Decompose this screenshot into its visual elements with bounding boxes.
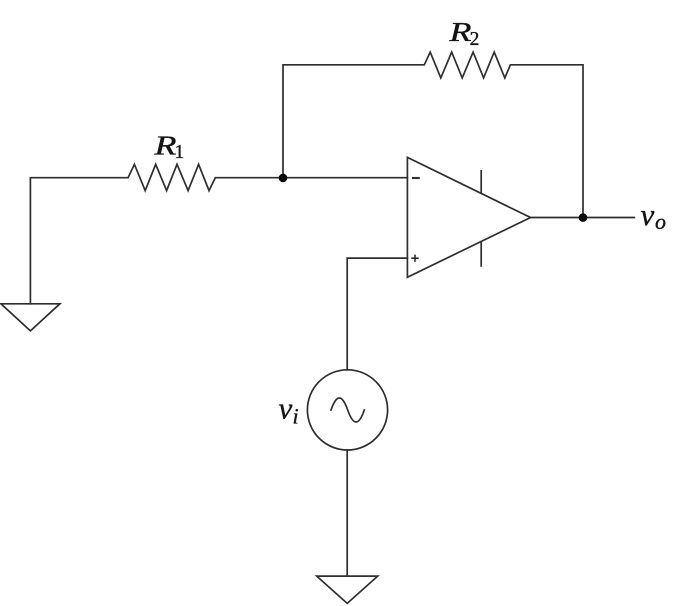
- svg-text:R: R: [153, 129, 177, 160]
- svg-text:2: 2: [470, 29, 480, 50]
- svg-text:1: 1: [175, 142, 185, 163]
- svg-text:i: i: [293, 403, 299, 428]
- svg-text:R: R: [448, 16, 472, 47]
- svg-text:v: v: [641, 197, 655, 232]
- svg-text:v: v: [279, 391, 293, 426]
- svg-text:o: o: [655, 209, 666, 234]
